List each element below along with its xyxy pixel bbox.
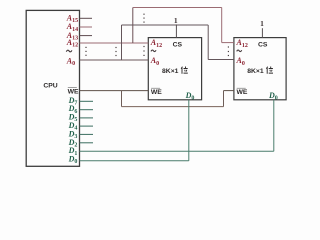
ellipsis dots top branch xyxy=(143,14,144,23)
svg-text:1: 1 xyxy=(260,19,264,28)
wire WE branch vertical xyxy=(121,91,123,107)
ellipsis dots before U3 xyxy=(228,46,229,56)
svg-text:8K×1: 8K×1 xyxy=(247,68,264,75)
wire A12 branch vertical xyxy=(132,8,134,44)
value label 8Kx1bit (U2) xyxy=(162,67,188,75)
wire D0 to U2 D0 xyxy=(80,160,189,162)
wire A0 mid run xyxy=(122,24,209,26)
wire A12 CPU to U2 xyxy=(80,42,149,44)
wire WE under run xyxy=(122,106,224,108)
wire D0 rise to U2 D0 pin xyxy=(188,100,190,161)
svg-text:WE: WE xyxy=(68,88,79,95)
svg-text:8K×1: 8K×1 xyxy=(162,68,179,75)
memory chip U2 box (8K x 1 bit) xyxy=(148,38,201,100)
ellipsis dots address bus left xyxy=(85,47,86,56)
svg-text:1: 1 xyxy=(174,16,178,25)
value label 8Kx1bit (U3) xyxy=(247,67,273,75)
wire D5 stub xyxy=(80,117,94,119)
wire WE rise to U3 xyxy=(223,91,225,107)
ellipsis dots before U2 xyxy=(143,46,144,56)
wire WE stub to U3 xyxy=(224,90,234,92)
ellipsis tilde (U2 address) xyxy=(151,50,156,52)
CPU U1 box xyxy=(26,10,79,166)
svg-text:CS: CS xyxy=(173,41,183,48)
wire D1 to U3 D0 xyxy=(80,150,274,152)
svg-text:CPU: CPU xyxy=(43,83,57,90)
wire A0 stub to U3 xyxy=(208,59,234,61)
wire D6 stub xyxy=(80,109,94,111)
wire A14 stub xyxy=(80,26,93,28)
wire D3 stub xyxy=(80,133,94,135)
ellipsis dots address bus mid xyxy=(115,47,116,56)
wire WE CPU to U2 xyxy=(80,90,149,92)
wire D1 rise to U3 D0 pin xyxy=(273,100,275,152)
node CS tie-high U2 xyxy=(175,24,177,37)
ellipsis tilde (CPU address) xyxy=(66,50,72,52)
wire A12 drop to U3 xyxy=(221,8,223,43)
svg-text:WE: WE xyxy=(151,89,162,96)
wire D4 stub xyxy=(80,125,94,127)
wire A13 stub xyxy=(80,35,93,37)
wire A12 stub to U3 xyxy=(222,42,234,44)
memory chip U3 box (8K x 1 bit) xyxy=(234,38,286,100)
wire A15 stub xyxy=(80,17,93,19)
wire A12 top run xyxy=(133,7,222,9)
wire A0 CPU to U2 xyxy=(80,59,149,61)
wire A0 branch vertical xyxy=(121,25,123,60)
wire A0 drop to U3 xyxy=(207,25,209,60)
svg-text:CS: CS xyxy=(258,41,268,48)
wire D2 stub xyxy=(80,142,94,144)
node CS tie-high U3 xyxy=(261,28,263,37)
ellipsis tilde (U3 address) xyxy=(237,50,242,52)
svg-text:WE: WE xyxy=(237,89,248,96)
wire D7 stub xyxy=(80,100,94,102)
